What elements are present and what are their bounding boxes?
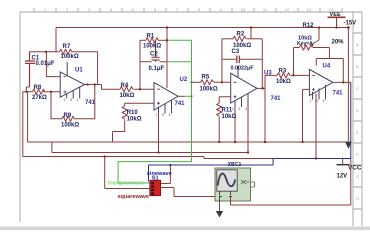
resistor R5 (201, 80, 214, 85)
wire R5 right lead to U3 minus (214, 81, 231, 83)
wire navy to S1 (149, 164, 274, 166)
wire R8 input row (23, 91, 33, 93)
wire U4 bottom pin drop (315, 94, 317, 159)
wire return L3 maroon part (23, 157, 273, 159)
resistor R1 (146, 38, 158, 43)
wire U1 output (85, 85, 120, 90)
svg-text:S1: S1 (152, 175, 159, 181)
wire R8 right lead to U1 plus input (43, 91, 60, 93)
wire U1 minus feedback row (30, 51, 60, 53)
svg-text:0.0022μF: 0.0022μF (231, 65, 255, 71)
sheet border right inner line (352, 12, 354, 226)
arrow terminator (345, 142, 352, 150)
ground arrow (216, 211, 223, 218)
svg-text:1: 1 (232, 107, 234, 111)
svg-text:C2: C2 (150, 52, 158, 58)
wire R2 right lead (247, 38, 263, 40)
wire top supply rail (56, 27, 348, 29)
svg-text:squarewave: squarewave (118, 194, 150, 200)
wire C3 box left vertical (221, 39, 223, 83)
svg-text:H: H (356, 196, 359, 201)
svg-text:triangularwave: triangularwave (108, 181, 145, 187)
svg-text:G: G (356, 174, 359, 179)
wire C1 bottom jog (26, 87, 29, 92)
op-amp U1 (60, 62, 84, 99)
wire U4 feedback top (329, 59, 343, 83)
wire R12 right lead (313, 48, 330, 59)
svg-text:U2: U2 (180, 77, 188, 83)
svg-text:B: B (356, 64, 359, 69)
resistor R8 (33, 89, 45, 94)
wire minus input drop (46, 52, 60, 77)
wire squarewave drop (105, 157, 150, 189)
wire green U2 feedback top row (167, 39, 192, 41)
svg-text:5: 5 (239, 107, 241, 111)
svg-text:5: 5 (316, 99, 318, 103)
svg-text:20%: 20% (332, 40, 345, 46)
svg-text:100kΩ: 100kΩ (61, 122, 79, 128)
resistor R11 vertical (217, 103, 222, 116)
svg-text:R8: R8 (34, 85, 42, 91)
wire C3 row (222, 58, 262, 60)
wire U2 bottom pin drop to L2 (158, 109, 160, 153)
svg-text:R12: R12 (303, 23, 315, 29)
sheet border left line (19, 12, 21, 222)
svg-text:100kΩ: 100kΩ (143, 43, 161, 49)
svg-text:R10: R10 (127, 110, 139, 116)
wire C2 bottom row (140, 61, 167, 63)
wire scope A drop to ground arrow (219, 196, 221, 211)
svg-text:4: 4 (245, 107, 247, 111)
svg-text:A: A (356, 42, 359, 47)
wire VEE stem (336, 18, 338, 28)
wire R5 row from green net (192, 81, 201, 83)
op-amp U4 (309, 69, 333, 99)
svg-text:U4: U4 (323, 64, 331, 70)
wire R8 left return down (22, 92, 24, 157)
svg-text:R7: R7 (63, 44, 71, 50)
wire U3 output (257, 87, 265, 89)
svg-text:U1: U1 (75, 68, 83, 74)
svg-text:10kΩ: 10kΩ (276, 79, 291, 85)
border top ticks (34, 8, 342, 12)
wire R9 left arm (51, 92, 62, 119)
wire R7 feedback right vertical (97, 52, 99, 85)
wire R1 right lead (158, 39, 167, 41)
wire bottom long run (231, 159, 351, 206)
wire pot to U4 top pin (316, 59, 329, 66)
wire rail drop to pot wiper (318, 28, 320, 41)
svg-text:4: 4 (323, 99, 325, 103)
wire return L2 (52, 152, 248, 154)
border row letters (356, 42, 359, 201)
wire S1 right tap up (161, 165, 171, 184)
svg-text:R4: R4 (121, 83, 129, 89)
wire navy drop into S1 (148, 165, 150, 182)
svg-text:R3: R3 (279, 69, 287, 75)
wire R2 left lead (222, 38, 233, 40)
resistor R10 vertical (122, 106, 127, 119)
svg-text:E: E (356, 130, 359, 135)
power VCC bar (337, 164, 350, 166)
resistor R4 (120, 87, 133, 92)
oscilloscope XBC1 (215, 168, 255, 201)
svg-text:1: 1 (156, 113, 158, 117)
wire R10 bottom return (113, 120, 125, 143)
wire navy L3 right part (273, 158, 351, 160)
wire U3 out / R3 vertical (264, 75, 266, 142)
svg-text:XBC1: XBC1 (228, 162, 242, 168)
svg-text:C: C (356, 86, 359, 91)
bottom window edge (0, 227, 370, 231)
svg-text:sinewave: sinewave (147, 171, 172, 177)
wire green triangularwave run (118, 162, 191, 183)
svg-text:5: 5 (70, 98, 72, 102)
svg-text:U3: U3 (264, 71, 272, 77)
wire U2 output stub (178, 95, 185, 97)
wire green output vertical (191, 40, 193, 161)
svg-text:R5: R5 (202, 75, 210, 81)
svg-text:VEE: VEE (330, 12, 341, 18)
wire U4 output (333, 81, 351, 83)
svg-text:12: 12 (285, 7, 290, 12)
pin numbers (64, 98, 325, 117)
capacitor C2 (152, 40, 160, 62)
wire green output stub (185, 95, 192, 97)
wire U3 bottom pin drops (235, 95, 248, 153)
svg-text:0.01μF: 0.01μF (36, 61, 55, 67)
svg-text:R9: R9 (64, 113, 72, 119)
wire green U2 feedback mid row (167, 61, 192, 63)
wire long return L1 (28, 92, 349, 142)
svg-text:Key=A: Key=A (297, 41, 313, 47)
wire rail drop to R2 row (250, 28, 252, 39)
wire R12 left lead down to U4 minus node (294, 48, 300, 76)
svg-text:-15V: -15V (344, 21, 357, 27)
capacitor C3 (237, 56, 240, 64)
sheet border right outer line (361, 12, 363, 226)
svg-text:10kΩ: 10kΩ (222, 114, 237, 120)
wire rail drop to U2 top pin (166, 28, 168, 89)
svg-text:D: D (356, 108, 359, 113)
resistor R7 (60, 49, 72, 54)
svg-text:4: 4 (169, 113, 171, 117)
svg-text:741: 741 (333, 90, 344, 96)
svg-text:10kΩ: 10kΩ (120, 93, 135, 99)
border column numbers (44, 7, 334, 12)
wire scope B drop (230, 196, 232, 205)
resistor R2 (233, 36, 246, 41)
svg-text:27kΩ: 27kΩ (32, 95, 47, 101)
wire U2 plus input (125, 103, 154, 106)
svg-text:12V: 12V (337, 174, 348, 180)
svg-text:10: 10 (241, 7, 246, 12)
wire C3 box right vertical (261, 39, 263, 89)
svg-text:5: 5 (162, 113, 164, 117)
wire R11 bottom drop (218, 117, 220, 143)
svg-text:R2: R2 (237, 31, 245, 37)
wire R9 right lead up to output node (74, 85, 95, 119)
svg-text:4: 4 (77, 98, 79, 102)
svg-text:C3: C3 (232, 49, 240, 55)
svg-text:100kΩ: 100kΩ (61, 54, 79, 60)
op-amp U2 (154, 83, 178, 114)
svg-text:1: 1 (310, 99, 312, 103)
wire sinewave navy from U4 out down right side (350, 82, 352, 158)
svg-text:741: 741 (85, 100, 96, 106)
op-amp U3 (231, 66, 257, 107)
capacitor C1 (25, 52, 35, 87)
wire R7 right lead (72, 51, 98, 53)
wire navy step down (272, 159, 274, 166)
resistor R12 (299, 45, 312, 50)
wire R1 C2 left vertical (139, 40, 141, 89)
wire arrow shaft right (347, 28, 349, 142)
svg-text:VCC: VCC (348, 165, 362, 172)
svg-text:0.1μF: 0.1μF (149, 66, 165, 72)
potentiometer R12 wiper arrow (312, 40, 320, 44)
wire R1 left lead (140, 39, 146, 41)
wire R4 right lead to U2 minus (134, 88, 155, 90)
wire U3 plus row (219, 97, 231, 103)
resistor R9 (62, 116, 74, 121)
svg-text:R1: R1 (147, 34, 155, 40)
wire U4 plus row (303, 89, 310, 142)
svg-text:10kΩ: 10kΩ (127, 116, 142, 122)
connector S1 (150, 180, 161, 195)
wire R3 right lead to U4 minus (291, 74, 310, 76)
border right ticks (353, 33, 362, 209)
sheet border top line (20, 11, 362, 13)
svg-text:1: 1 (64, 98, 66, 102)
svg-text:13: 13 (307, 7, 312, 12)
wire L1 to L2 jog (51, 142, 53, 153)
wire VCC stem (342, 159, 344, 165)
resistor R3 (277, 73, 290, 78)
wire S1 right tap down (161, 188, 220, 197)
wire rail left drop to U1 feedback row (55, 28, 57, 52)
svg-text:741: 741 (271, 96, 282, 102)
svg-text:100kΩ: 100kΩ (200, 86, 218, 92)
power labels (330, 12, 362, 180)
power VEE bar (328, 16, 346, 18)
svg-text:741: 741 (175, 101, 186, 107)
wire R3 left lead (265, 74, 277, 76)
